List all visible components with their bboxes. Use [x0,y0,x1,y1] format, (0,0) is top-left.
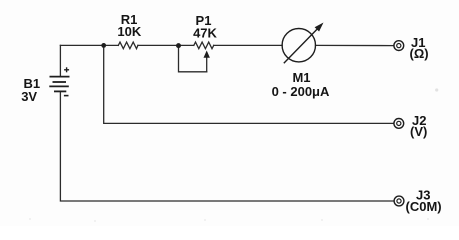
scan specks (decorative) [29,218,429,222]
battery B1 plates [49,77,69,92]
node junction dot A [101,43,106,48]
svg-text:(Ω): (Ω) [410,46,429,61]
svg-text:0 - 200μA: 0 - 200μA [272,84,330,99]
terminal J2 [394,119,404,129]
svg-text:10K: 10K [117,24,141,39]
svg-text:(C0M): (C0M) [406,199,442,214]
wire junction A down to J2 row [104,45,394,123]
terminal J3 [394,196,404,206]
svg-text:(V): (V) [410,124,427,139]
meter M1 circle [282,29,315,62]
wire P1 rheostat loop [179,46,207,72]
P1 wiper arrowhead [204,51,210,58]
wire P1 to meter [214,44,282,46]
wire battery top stub [59,45,61,76]
resistor R1 [118,42,138,49]
battery plus sign [64,67,69,72]
wire P1 wiper arrow shaft [206,57,208,72]
wire R1 to P1 [138,44,194,46]
wire top horizontal: battery to R1 [60,44,118,46]
potentiometer P1 [194,42,214,49]
svg-text:3V: 3V [21,89,37,104]
wire battery bottom to J3 corner [60,92,394,201]
node junction dot B [176,43,181,48]
svg-text:M1: M1 [292,70,310,85]
meter M1 needle arrowhead [315,23,324,32]
meter M1 needle [284,29,318,64]
battery minus sign [64,95,69,97]
terminal J1 [394,41,404,51]
svg-text:47K: 47K [193,26,217,41]
wire meter to J1 [316,44,394,46]
